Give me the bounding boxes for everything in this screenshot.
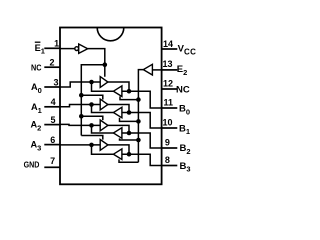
buffer A3-B3 triangle (100, 140, 108, 151)
svg-text:A2: A2 (31, 120, 42, 133)
svg-text:3: 3 (53, 78, 58, 88)
pin 12 stub (NC) (162, 88, 178, 90)
pin 8 stub (162, 165, 178, 167)
wire E1 enable rail left branch (81, 65, 105, 136)
node E2 rail tap ch0 (136, 97, 141, 102)
wire enable hook to buffer ch0 B-A (120, 96, 138, 99)
pin 6 stub (44, 144, 60, 146)
svg-text:A1: A1 (31, 102, 42, 115)
pin 9 stub (162, 147, 178, 149)
pin 14 stub (VCC) (162, 48, 178, 50)
pin 7 stub (GND) (44, 166, 60, 168)
buffer U1b triangle (E2 enable, left-pointing) (143, 64, 152, 75)
svg-text:5: 5 (50, 115, 55, 125)
svg-text:7: 7 (50, 156, 55, 166)
buffer A1-B1 triangle (100, 99, 108, 110)
wire inverter output to enable rail (88, 49, 105, 77)
pin 2 stub (NC) (44, 66, 60, 68)
buffer B0-A0 triangle (113, 86, 122, 97)
node B0 junction (127, 89, 132, 94)
svg-text:GND: GND (24, 161, 40, 170)
svg-text:E1: E1 (35, 43, 45, 56)
svg-text:10: 10 (163, 117, 173, 127)
svg-text:1: 1 (54, 39, 59, 49)
pin 5 stub (44, 124, 60, 126)
svg-text:NC: NC (31, 62, 42, 72)
svg-text:6: 6 (50, 135, 55, 145)
wire E2 input (152, 69, 161, 71)
wire A0 node to B-A output (92, 82, 114, 91)
node A3 junction (89, 143, 94, 148)
pin 11 stub (162, 107, 178, 109)
node B2 junction (127, 131, 132, 136)
svg-text:B2: B2 (180, 143, 191, 156)
wire B2 to pin 9 (122, 133, 162, 148)
node E2 rail tap ch1 (136, 119, 141, 124)
wire A1-B1 output jog (108, 105, 129, 113)
svg-text:14: 14 (163, 39, 173, 49)
svg-text:B0: B0 (179, 104, 190, 117)
wire A1 node to B-A output (92, 105, 114, 113)
wire B1 to pin 10 (122, 113, 162, 129)
pin 1 stub (44, 47, 60, 49)
svg-text:A0: A0 (31, 82, 42, 95)
wire A3 node to B-A output (92, 145, 114, 154)
buffer A0-B0 triangle (100, 77, 108, 88)
svg-text:A3: A3 (31, 140, 42, 153)
svg-text:NC: NC (176, 84, 190, 95)
pin-1 index notch (97, 28, 124, 41)
pin 3 stub (44, 86, 60, 88)
wire enable hook to buffer ch3 B-A (119, 159, 138, 162)
IC package body U1 (DIP-14 outline) (60, 28, 162, 185)
svg-text:11: 11 (164, 98, 174, 108)
node B3 junction (127, 152, 132, 157)
node A1 junction (89, 102, 94, 107)
pin 10 stub (162, 127, 178, 129)
svg-text:VCC: VCC (178, 44, 197, 57)
node E1 rail tap ch2 (79, 114, 84, 119)
pin 4 stub (44, 106, 60, 108)
wire B3 to pin 8 (122, 154, 162, 165)
wire enable hook to buffer ch3 (81, 136, 103, 140)
wire E1 input to inverter (60, 48, 75, 50)
wire A3 input (60, 144, 100, 146)
svg-text:B3: B3 (180, 161, 191, 174)
svg-text:8: 8 (165, 155, 170, 165)
svg-text:12: 12 (163, 79, 173, 89)
svg-text:B1: B1 (179, 123, 190, 136)
buffer B3-A3 triangle (113, 149, 122, 160)
node A2 junction (89, 123, 94, 128)
wire A2-B2 output jog (108, 125, 129, 133)
svg-text:9: 9 (165, 137, 170, 147)
svg-text:E2: E2 (177, 64, 188, 77)
wire enable hook to buffer ch1 B-A (120, 118, 139, 122)
inverter U1a triangle (E1 enable) (79, 44, 88, 53)
wire enable hook to buffer ch2 (81, 116, 103, 120)
wire E2 enable rail (138, 70, 143, 163)
inverter U1a input bubble (75, 47, 79, 51)
buffer B2-A2 triangle (113, 128, 122, 139)
node E1 rail junction (103, 62, 108, 67)
buffer A2-B2 triangle (100, 120, 108, 131)
overbar of E1 (35, 41, 41, 43)
svg-text:13: 13 (163, 59, 173, 69)
wire enable hook to buffer ch2 B-A (120, 138, 139, 140)
node E1 rail tap ch1 (79, 93, 84, 98)
wire A0 input (60, 82, 100, 87)
wire B0 to pin 11 (122, 91, 162, 108)
node B1 junction (127, 110, 132, 115)
wire A1 input (60, 105, 100, 107)
node A0 junction (89, 80, 94, 85)
wire A2 node to B-A output (92, 125, 114, 133)
node E2 rail tap ch2 (136, 138, 141, 143)
pin 13 stub (162, 69, 178, 71)
wire A2 input (60, 124, 100, 125)
buffer B1-A1 triangle (113, 107, 122, 118)
wire A3-B3 output jog (108, 145, 129, 154)
svg-text:4: 4 (51, 97, 56, 107)
wire enable hook to buffer ch1 (81, 95, 103, 99)
wire A0-B0 output jog (108, 82, 129, 91)
svg-text:2: 2 (49, 58, 54, 68)
